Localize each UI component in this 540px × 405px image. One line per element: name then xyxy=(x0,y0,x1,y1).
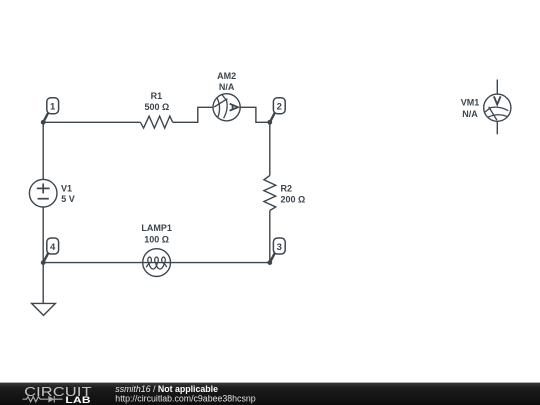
svg-text:4: 4 xyxy=(50,242,56,253)
svg-text:LAB: LAB xyxy=(65,395,90,405)
voltage source V1 xyxy=(29,179,57,207)
footer attribution text xyxy=(115,384,255,404)
svg-text:100 Ω: 100 Ω xyxy=(144,235,169,245)
resistor R2 xyxy=(264,176,276,211)
wire VM1 bottom stub xyxy=(496,121,498,134)
svg-text:N/A: N/A xyxy=(219,82,235,92)
node 3 junction dot xyxy=(267,260,272,265)
svg-text:LAMP1: LAMP1 xyxy=(141,223,172,233)
ground xyxy=(32,303,56,315)
svg-text:N/A: N/A xyxy=(462,109,478,119)
resistor R1 xyxy=(140,116,172,128)
svg-text:V1: V1 xyxy=(61,184,72,194)
wire R2 to node3 xyxy=(269,211,271,263)
svg-text:R2: R2 xyxy=(281,184,293,194)
svg-text:http://circuitlab.com/c9abee38: http://circuitlab.com/c9abee38hcsnp xyxy=(115,393,255,403)
lamp LAMP1 xyxy=(143,249,171,277)
svg-text:2: 2 xyxy=(277,102,282,113)
svg-text:5 V: 5 V xyxy=(61,194,75,204)
wire V1 to node4 and ground xyxy=(42,207,44,303)
CircuitLab logo wordmark xyxy=(24,386,92,405)
node 1 junction dot xyxy=(41,120,46,125)
node 1 flag xyxy=(43,98,58,123)
voltmeter VM1 xyxy=(484,94,511,121)
node 4 junction dot xyxy=(41,260,46,265)
wire node1 to R1 (top left horizontal) xyxy=(43,121,140,123)
logo resistor-diode squiggle xyxy=(23,396,63,403)
svg-text:R1: R1 xyxy=(151,91,163,101)
svg-text:VM1: VM1 xyxy=(461,98,480,108)
wire bottom rail node4 to node3 through lamp xyxy=(43,262,270,264)
wire VM1 top stub xyxy=(496,80,498,95)
svg-text:1: 1 xyxy=(50,102,56,113)
ammeter AM2 xyxy=(213,94,240,121)
node 2 flag xyxy=(270,98,285,123)
wire node2 to R2 (right vertical) xyxy=(269,122,271,175)
svg-text:200 Ω: 200 Ω xyxy=(281,194,306,204)
node 2 junction dot xyxy=(267,120,272,125)
wire node1 to V1 (left vertical) xyxy=(42,122,44,179)
svg-text:3: 3 xyxy=(277,242,282,253)
wire R1 to ammeter jog xyxy=(173,107,213,122)
node 3 flag xyxy=(270,238,285,263)
svg-text:AM2: AM2 xyxy=(217,71,236,81)
wire ammeter to node2 jog xyxy=(240,107,270,122)
svg-text:ssmith16 / Not applicable: ssmith16 / Not applicable xyxy=(115,384,218,394)
svg-text:500 Ω: 500 Ω xyxy=(145,102,170,112)
node 4 flag xyxy=(43,238,58,263)
